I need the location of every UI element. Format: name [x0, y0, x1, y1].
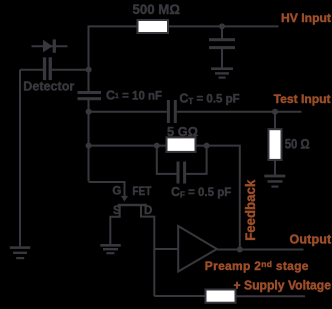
wire op-amp input [154, 248, 178, 250]
wire FET source lead [110, 205, 119, 245]
transistor Q1 FET channel bar [118, 204, 147, 206]
wire supply rail right of resistor [236, 295, 306, 297]
capacitor CT plate right [174, 100, 177, 123]
wire 50 ohm top lead [274, 112, 276, 130]
capacitor CF plate left [177, 162, 180, 184]
svg-text:+ Supply Voltage: + Supply Voltage [234, 279, 332, 293]
wire supply rail left of resistor [154, 295, 205, 297]
node junction dot feedback output [237, 247, 243, 253]
resistor R3 50 ohm body [269, 129, 282, 160]
wire feedback rail right of 5G resistor [196, 146, 240, 250]
svg-text:HV Input: HV Input [281, 11, 331, 25]
wire detector horizontal right [52, 69, 89, 71]
svg-text:D: D [144, 205, 152, 217]
svg-text:5 GΩ: 5 GΩ [167, 125, 198, 139]
wire 50 ohm bottom lead to ground [274, 160, 276, 175]
svg-text:Feedback: Feedback [242, 180, 258, 241]
svg-text:Preamp 2nd stage: Preamp 2nd stage [205, 259, 309, 273]
node junction dot test branch [86, 109, 92, 115]
capacitor C1 top plate [78, 91, 102, 94]
svg-text:C1 = 10 nF: C1 = 10 nF [106, 89, 162, 103]
svg-text:CF = 0.5 pF: CF = 0.5 pF [171, 185, 231, 200]
capacitor HV filter plate bottom [209, 46, 235, 49]
wire output [217, 249, 304, 251]
capacitor CT plate left [167, 100, 170, 123]
capacitor C1 bottom plate [78, 97, 102, 100]
ground HV filter [211, 67, 233, 70]
node junction dot detector [86, 67, 92, 73]
capacitor detector plate right [49, 57, 52, 80]
wire top HV rail right segment [168, 25, 279, 27]
op-amp U1 triangle [178, 226, 217, 272]
svg-text:Test Input: Test Input [274, 92, 331, 106]
svg-text:Detector: Detector [23, 80, 74, 94]
wire HV filter cap to ground [221, 49, 223, 68]
node junction dot 50 ohm [272, 109, 278, 115]
transistor Q1 FET gate arrowhead [121, 196, 128, 202]
wire left vertical to ground [19, 70, 21, 247]
wire detector horizontal left [20, 69, 43, 71]
wire HV filter cap stem [221, 26, 223, 38]
resistor R4 supply body [206, 290, 236, 303]
node junction dot feedback branch [86, 143, 92, 149]
wire test input line left of CT [89, 111, 167, 113]
wire diode lead [32, 45, 68, 47]
resistor R1 500 Mohm body [138, 20, 169, 33]
capacitor CF plate right [183, 162, 186, 184]
wire test input line right of CT [177, 111, 302, 113]
wire feedback rail left of 5G resistor [89, 145, 167, 147]
svg-text:Output: Output [290, 232, 332, 246]
svg-text:CT = 0.5 pF: CT = 0.5 pF [179, 92, 239, 107]
ground left detector [10, 246, 31, 249]
wire top HV rail left segment [89, 26, 138, 91]
node junction dot top HV [219, 23, 225, 29]
wire CF cap loop left [157, 146, 177, 174]
svg-text:G: G [112, 186, 121, 198]
wire CF cap loop right [186, 146, 206, 174]
diode D1 detector triangle [43, 40, 53, 53]
node junction dot CF right [204, 143, 210, 149]
svg-text:FET: FET [132, 186, 151, 198]
wire gate horizontal [89, 182, 125, 196]
svg-text:S: S [113, 205, 121, 217]
svg-text:50 Ω: 50 Ω [285, 137, 310, 152]
wire FET drain lead [141, 205, 154, 296]
ground 50 ohm [264, 175, 285, 178]
capacitor detector plate left [43, 57, 46, 80]
diode D1 cathode bar [53, 39, 56, 52]
capacitor HV filter plate top [209, 38, 235, 41]
wire main vertical below C1 [88, 100, 90, 181]
ground FET source [100, 244, 121, 247]
svg-text:500 MΩ: 500 MΩ [133, 2, 181, 17]
node junction dot CF left [154, 143, 160, 149]
resistor R2 5 Gohm body [167, 137, 196, 152]
